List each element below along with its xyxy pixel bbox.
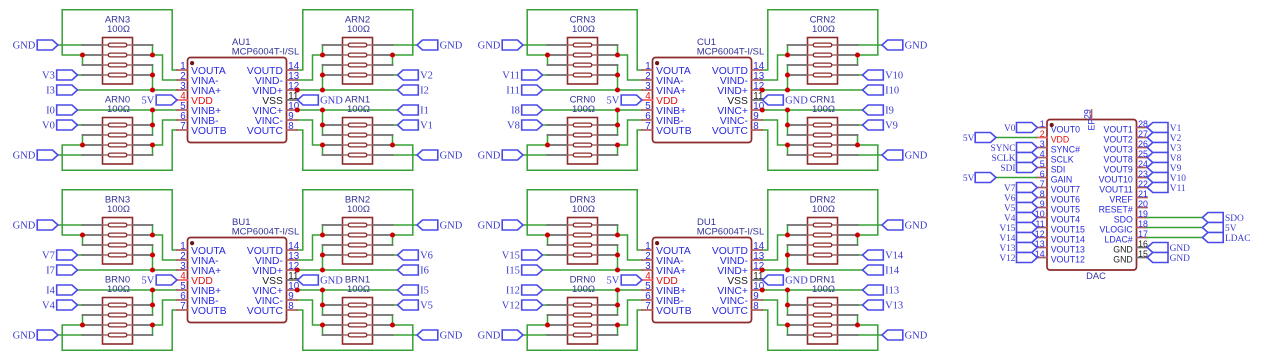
svg-text:5V: 5V [963,134,975,144]
global label SDI [1000,163,1037,174]
global label GND [1147,243,1190,254]
svg-text:LDAC: LDAC [1225,234,1251,244]
svg-text:100Ω: 100Ω [812,104,835,115]
wire ARN2 rows3-4 to VIND+ [322,65,324,90]
svg-text:5V: 5V [607,276,620,287]
wire I2 to AU1 pin12 [297,89,398,91]
wire CRN3 rows3-4 to VINA+ [617,65,619,90]
svg-text:GND: GND [440,151,463,162]
wire V9 to CRN1 row1 [858,124,863,126]
svg-text:6: 6 [1040,169,1045,179]
global label GND [882,220,928,232]
global label V0 [1004,123,1037,134]
wire ARN3 rows3-4 to VINA+ [152,65,154,90]
global label V15 [999,223,1037,234]
svg-text:GND: GND [478,221,501,232]
wire BRN3 rows1-2 to VINA- BU1 [153,225,178,260]
global label GND [882,150,928,162]
svg-text:SCLK: SCLK [1051,155,1074,165]
wire ARN1 rows1-2 to VINC+ [322,110,324,135]
svg-text:V14: V14 [999,234,1015,244]
wire VOUTC loop AU1 [297,130,413,170]
global label I4 [46,285,77,297]
global label V4 [1004,213,1037,224]
svg-text:GND: GND [478,331,501,342]
wire GND to ARN0 row4 [58,154,83,156]
svg-text:VOUT9: VOUT9 [1103,165,1132,175]
global label V10 [1147,173,1186,184]
global label SCLK [992,153,1038,164]
wire ARN1 rows3-4 to VINC- AU1 [297,120,323,155]
wire DRN3 rows1-2 to VINA- DU1 [618,225,643,260]
wire CRN0 rows1-2 to VINB+ [617,110,619,135]
wire V14 to DRN2 row4 [858,254,863,256]
svg-text:100Ω: 100Ω [107,204,130,215]
svg-text:V3: V3 [42,71,55,82]
wire GND to DRN3 row1 [523,224,548,226]
global label V12 [502,300,543,312]
global label I10 [863,85,900,97]
global label GND at VSS [763,95,809,107]
resistor network BRN2 100Ω [323,195,393,265]
svg-text:MCP6004T-I/SL: MCP6004T-I/SL [232,47,300,58]
svg-text:VOUT5: VOUT5 [1051,205,1080,215]
wire V4 to BRN0 row1 [78,304,83,306]
junction dots quadrant D [545,232,860,327]
power flag 5V to VDD [142,95,177,107]
junction dots quadrant C [545,52,860,147]
svg-text:I8: I8 [511,106,520,117]
svg-text:EP: EP [1086,119,1096,131]
global label GND [417,150,463,162]
svg-text:V9: V9 [885,121,898,132]
global label GND [478,330,523,342]
svg-text:I0: I0 [46,106,55,117]
svg-text:I15: I15 [506,266,520,277]
svg-text:I14: I14 [885,266,900,277]
svg-text:V5: V5 [420,301,433,312]
svg-text:VOUTC: VOUTC [247,306,284,317]
svg-text:GND: GND [1113,245,1133,255]
global label I8 [511,105,542,117]
svg-text:I7: I7 [46,266,55,277]
wire DRN1 rows3-4 to VINC- DU1 [762,300,788,335]
wire GND to CRN3 row1 [523,44,548,46]
svg-text:SYNC: SYNC [990,144,1015,154]
svg-text:VOUTB: VOUTB [656,126,692,137]
global label 5V [1202,223,1236,234]
svg-text:GND: GND [440,331,463,342]
wire GND to CRN0 row4 [523,154,548,156]
resistor network BRN3 100Ω [83,195,153,265]
wire I11 to CU1 pin3 [543,89,643,91]
svg-text:V14: V14 [885,251,904,262]
wire ARN3 rows1-2 to VINA- AU1 [153,45,178,80]
wire V6 to BRN2 row4 [393,254,398,256]
wire ARN0 rows1-2 to VINB+ [152,110,154,135]
junction dots quadrant B [80,232,395,327]
svg-text:GND: GND [905,41,928,52]
global label GND [13,220,58,232]
svg-text:LDAC#: LDAC# [1104,235,1132,245]
wire I10 to CU1 pin12 [762,89,863,91]
resistor network ARN0 100Ω [83,95,153,165]
global label GND at VSS [763,275,809,287]
wire V7 to BRN3 row4 [78,254,83,256]
wire VOUTD loop AU1 [297,10,413,70]
svg-text:V15: V15 [502,251,520,262]
wire DRN0 rows3-4 to VINB- DU1 [618,300,643,335]
wire I5 to BU1 pin10 [297,289,398,291]
power flag 5V [963,173,996,184]
wire VOUTB loop CU1 [527,130,642,170]
wire GND to BRN1 row4 [393,334,418,336]
svg-text:7: 7 [180,301,185,312]
wire I12 to DU1 pin5 [543,289,643,291]
wire I3 to AU1 pin3 [78,89,178,91]
wire CRN2 rows1-2 to VIND- CU1 [762,45,788,80]
global label V5 [1004,203,1037,214]
svg-text:RESET#: RESET# [1099,205,1133,215]
wire I4 to BU1 pin5 [78,289,178,291]
global label V8 [1147,153,1181,164]
global label V6 [1004,193,1037,204]
wire 5V [996,177,1037,179]
resistor network CRN3 100Ω [548,15,618,85]
svg-text:SDI: SDI [1051,165,1066,175]
global label I12 [506,285,543,297]
svg-text:100Ω: 100Ω [347,104,370,115]
svg-text:100Ω: 100Ω [107,104,130,115]
svg-text:GND: GND [785,276,808,287]
svg-text:SDI: SDI [1000,164,1015,174]
global label I7 [46,265,77,277]
global label GND [478,150,523,162]
svg-text:I11: I11 [506,86,520,97]
global label GND [13,150,58,162]
wire V1 to ARN1 row1 [393,124,398,126]
svg-text:V12: V12 [999,254,1015,264]
wire I6 to BU1 pin12 [297,269,398,271]
svg-text:3: 3 [1040,139,1045,149]
svg-text:V4: V4 [1004,214,1016,224]
global label GND at VSS [298,95,344,107]
global label SDO [1202,213,1244,224]
wire GND to BRN3 row1 [58,224,83,226]
wire BRN0 rows1-2 to VINB+ [152,290,154,315]
global label V7 [42,250,77,262]
global label GND [417,40,463,52]
global label V9 [863,120,898,132]
svg-text:V8: V8 [1170,154,1182,164]
svg-text:VLOGIC: VLOGIC [1100,225,1134,235]
global label V2 [1147,133,1181,144]
svg-text:20: 20 [1138,199,1148,209]
svg-text:VOUTC: VOUTC [712,126,749,137]
power flag 5V to VDD [142,275,177,287]
wire CRN1 rows1-2 to VINC+ [787,110,789,135]
resistor network DRN1 100Ω [788,275,858,345]
global label I1 [398,105,429,117]
svg-text:7: 7 [645,121,650,132]
svg-text:V2: V2 [1170,134,1182,144]
wire CRN3 rows1-2 to VINA- CU1 [618,45,643,80]
wire V5 to BRN1 row1 [393,304,398,306]
svg-text:VOUT0: VOUT0 [1051,125,1080,135]
svg-text:MCP6004T-I/SL: MCP6004T-I/SL [232,227,300,238]
svg-text:VOUTB: VOUTB [656,306,692,317]
svg-text:V13: V13 [885,301,903,312]
svg-text:I13: I13 [885,286,899,297]
global label I2 [398,85,429,97]
svg-text:VOUT2: VOUT2 [1103,135,1132,145]
svg-text:GND: GND [13,151,36,162]
resistor network CRN2 100Ω [788,15,858,85]
svg-text:GAIN: GAIN [1051,175,1073,185]
wire I0 to AU1 pin5 [78,109,178,111]
wire I1 to AU1 pin10 [297,109,398,111]
global label V13 [863,300,904,312]
wire BRN2 rows1-2 to VIND- BU1 [297,225,323,260]
resistor network CRN1 100Ω [788,95,858,165]
wire VOUTD loop CU1 [762,10,878,70]
wire V2 to ARN2 row4 [393,74,398,76]
global label I15 [506,265,543,277]
op-amp BU1 MCP6004T-I/SL [177,217,300,322]
svg-text:I6: I6 [420,266,429,277]
wire CRN2 rows3-4 to VIND+ [787,65,789,90]
svg-text:I4: I4 [46,286,55,297]
op-amp DU1 MCP6004T-I/SL [642,217,765,322]
svg-text:I1: I1 [420,106,429,117]
power flag 5V [963,133,996,144]
wire V13 to DRN1 row1 [858,304,863,306]
svg-text:GND: GND [320,276,343,287]
wire GND to ARN3 row1 [58,44,83,46]
global label GND [882,330,928,342]
resistor network BRN1 100Ω [323,275,393,345]
svg-text:100Ω: 100Ω [347,204,370,215]
svg-text:5V: 5V [142,96,155,107]
svg-text:VOUT11: VOUT11 [1099,185,1133,195]
wire DRN3 rows3-4 to VINA+ [617,245,619,270]
global label V15 [502,250,543,262]
svg-text:100Ω: 100Ω [572,104,595,115]
global label V13 [999,243,1037,254]
wire VOUTD loop BU1 [297,190,413,250]
wire VOUTC loop CU1 [762,130,878,170]
global label V6 [398,250,433,262]
DAC U2 28-pin with exposed pad [1035,109,1148,281]
svg-text:7: 7 [645,301,650,312]
global label V3 [42,70,77,82]
wire ARN0 rows3-4 to VINB- AU1 [153,120,178,155]
svg-text:V15: V15 [999,224,1015,234]
global label V14 [863,250,904,262]
svg-text:V6: V6 [1004,194,1016,204]
global label V5 [398,300,433,312]
op-amp AU1 MCP6004T-I/SL [177,37,300,142]
wire SDO [1147,217,1203,219]
svg-text:V7: V7 [42,251,55,262]
svg-text:V5: V5 [1004,204,1016,214]
svg-text:5V: 5V [607,96,620,107]
global label V9 [1147,163,1181,174]
svg-text:VOUT7: VOUT7 [1051,185,1080,195]
resistor network ARN2 100Ω [323,15,393,85]
global label I0 [46,105,77,117]
svg-text:29: 29 [1082,109,1092,119]
wire GND to ARN1 row4 [393,154,418,156]
svg-text:MCP6004T-I/SL: MCP6004T-I/SL [697,227,765,238]
resistor network CRN0 100Ω [548,95,618,165]
svg-text:GND: GND [478,151,501,162]
svg-text:GND: GND [440,221,463,232]
wire I14 to DU1 pin12 [762,269,863,271]
svg-text:100Ω: 100Ω [812,284,835,295]
global label GND [417,220,463,232]
wire GND to DRN1 row4 [858,334,883,336]
global label GND [13,330,58,342]
svg-text:GND: GND [13,331,36,342]
svg-text:100Ω: 100Ω [572,24,595,35]
op-amp CU1 MCP6004T-I/SL [642,37,765,142]
svg-text:VOUTB: VOUTB [191,126,227,137]
svg-text:100Ω: 100Ω [572,204,595,215]
wire LDAC [1147,237,1203,239]
wire GND to CRN1 row4 [858,154,883,156]
svg-text:V11: V11 [502,71,520,82]
wire VOUTA loop DU1 [527,190,642,250]
svg-text:GND: GND [1170,244,1191,254]
svg-text:V10: V10 [1170,174,1186,184]
svg-text:SYNC#: SYNC# [1051,145,1080,155]
svg-text:9: 9 [1040,199,1045,209]
svg-text:2: 2 [1040,129,1045,139]
svg-text:V2: V2 [420,71,433,82]
svg-text:GND: GND [1170,254,1191,264]
svg-text:V8: V8 [507,121,520,132]
resistor network ARN1 100Ω [323,95,393,165]
wire VOUTA loop AU1 [62,10,177,70]
wire 5V [1147,227,1203,229]
global label V7 [1004,183,1037,194]
resistor network DRN3 100Ω [548,195,618,265]
svg-text:I5: I5 [420,286,429,297]
global label I9 [863,105,894,117]
svg-text:100Ω: 100Ω [347,24,370,35]
wire DRN2 rows3-4 to VIND+ [787,245,789,270]
global label V10 [863,70,904,82]
svg-text:100Ω: 100Ω [812,204,835,215]
svg-text:8: 8 [288,121,294,132]
svg-text:GND: GND [905,151,928,162]
svg-text:V4: V4 [42,301,56,312]
wire V3 to ARN3 row4 [78,74,83,76]
svg-text:VOUT3: VOUT3 [1103,145,1132,155]
global label GND [478,220,523,232]
svg-text:V9: V9 [1170,164,1182,174]
svg-text:100Ω: 100Ω [812,24,835,35]
svg-text:100Ω: 100Ω [107,284,130,295]
svg-text:SDO: SDO [1225,214,1244,224]
svg-text:VOUT1: VOUT1 [1103,125,1132,135]
global label I13 [863,285,900,297]
global label I6 [398,265,429,277]
svg-text:1: 1 [1040,119,1045,129]
wire BRN1 rows1-2 to VINC+ [322,290,324,315]
svg-text:I9: I9 [885,106,894,117]
svg-text:I3: I3 [46,86,55,97]
global label V1 [1147,123,1181,134]
global label V2 [398,70,433,82]
wire CRN1 rows3-4 to VINC- CU1 [762,120,788,155]
wire GND to DRN0 row4 [523,334,548,336]
svg-text:5V: 5V [142,276,155,287]
wire BRN2 rows3-4 to VIND+ [322,245,324,270]
global label V3 [1147,143,1181,154]
global label V12 [999,253,1037,264]
svg-text:V11: V11 [1170,184,1186,194]
global label SYNC [990,143,1037,154]
svg-text:VOUT14: VOUT14 [1051,235,1085,245]
svg-text:SDO: SDO [1114,215,1133,225]
wire VOUTB loop BU1 [62,310,177,350]
svg-text:V3: V3 [1170,144,1182,154]
wire BRN3 rows3-4 to VINA+ [152,245,154,270]
svg-text:VDD: VDD [1051,135,1070,145]
wire VOUTB loop DU1 [527,310,642,350]
svg-text:GND: GND [905,331,928,342]
svg-text:5V: 5V [963,174,975,184]
svg-text:DAC: DAC [1086,271,1106,281]
svg-text:VREF: VREF [1109,195,1133,205]
svg-text:V1: V1 [420,121,433,132]
wire V15 to DRN3 row4 [543,254,548,256]
wire DRN0 rows1-2 to VINB+ [617,290,619,315]
global label GND [1147,253,1190,264]
svg-text:I12: I12 [506,286,520,297]
svg-text:VOUTC: VOUTC [712,306,749,317]
svg-text:7: 7 [1040,179,1045,189]
junction dots quadrant A [80,52,395,147]
wire ARN2 rows1-2 to VIND- AU1 [297,45,323,80]
wire DRN1 rows1-2 to VINC+ [787,290,789,315]
svg-text:8: 8 [753,301,759,312]
global label GND [478,40,523,52]
svg-text:VOUT4: VOUT4 [1051,215,1080,225]
wire GND to CRN2 row1 [858,44,883,46]
svg-text:GND: GND [13,221,36,232]
wire GND to BRN0 row4 [58,334,83,336]
svg-text:5V: 5V [1225,224,1237,234]
global label V14 [999,233,1037,244]
global label LDAC [1202,233,1250,244]
wire VOUTB loop AU1 [62,130,177,170]
svg-text:GND: GND [13,41,36,52]
svg-text:VOUT10: VOUT10 [1099,175,1133,185]
svg-text:GND: GND [478,41,501,52]
svg-text:21: 21 [1138,189,1148,199]
global label V11 [1147,183,1186,194]
svg-text:VOUT15: VOUT15 [1051,225,1085,235]
wire CRN0 rows3-4 to VINB- CU1 [618,120,643,155]
svg-text:V7: V7 [1004,184,1016,194]
global label I14 [863,265,900,277]
global label I3 [46,85,77,97]
wire BRN0 rows3-4 to VINB- BU1 [153,300,178,335]
svg-text:MCP6004T-I/SL: MCP6004T-I/SL [697,47,765,58]
